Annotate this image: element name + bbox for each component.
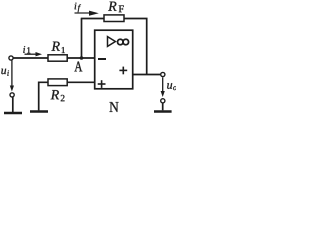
label i1 <box>23 46 30 53</box>
label A <box>74 62 82 72</box>
op-amp U1 box <box>95 30 133 89</box>
wire: R1 to op-amp inverting input <box>67 57 95 59</box>
non-inverting input marker (plus) <box>98 80 106 88</box>
ground bar for R2 <box>30 110 48 112</box>
wire: u_i bottom terminal to ground <box>12 97 14 112</box>
node A junction dot <box>80 56 84 60</box>
inverting input marker (minus) <box>98 58 106 60</box>
resistor RF <box>104 15 124 22</box>
wire: feedback riser from node A <box>81 19 83 59</box>
label ui <box>1 69 9 76</box>
u_i bottom terminal circle <box>10 93 14 97</box>
wire: u_o bottom terminal to ground <box>162 103 164 110</box>
label N <box>109 102 118 112</box>
u_o bottom terminal circle <box>161 99 165 103</box>
op-amp infinity symbol <box>118 39 129 45</box>
ground bar for u_o <box>154 110 172 112</box>
wire: RF to right corner down to output <box>124 19 147 75</box>
resistor R2 <box>48 79 67 86</box>
label uo <box>167 83 176 90</box>
u_i polarity arrow <box>10 61 14 92</box>
input terminal circle (u_i top) <box>9 56 13 60</box>
resistor R1 <box>48 55 67 61</box>
ground bar for u_i <box>4 112 22 114</box>
label if <box>75 3 81 13</box>
u_o polarity arrow <box>161 77 165 97</box>
wire: input terminal to R1 <box>13 57 48 59</box>
current arrow i1 <box>25 52 43 56</box>
wire: R2 left corner down to ground <box>39 82 48 110</box>
label RF <box>108 2 124 13</box>
output polarity marker (plus) <box>119 67 127 75</box>
label R2 <box>51 90 65 101</box>
output terminal circle (u_o top) <box>161 72 165 76</box>
current arrow if <box>75 11 99 16</box>
wire: top feedback left segment <box>81 18 104 20</box>
label R1 <box>51 42 64 53</box>
wire: R2 to non-inverting input <box>67 81 95 83</box>
wire: op-amp output <box>133 74 161 76</box>
op-amp gain triangle symbol <box>108 37 116 47</box>
